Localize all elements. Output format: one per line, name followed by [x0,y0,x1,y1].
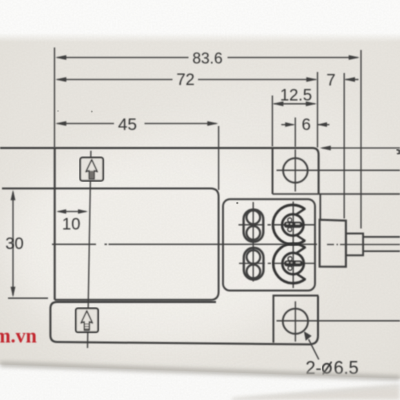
bottom white band [0,362,400,400]
cut-off char at right edge [397,150,400,155]
phi diameter symbol [323,362,332,375]
dim 7 right arrow [346,79,359,81]
screw upper 1 [247,211,261,225]
bottom section rounded rect [50,296,318,344]
ext line 83.6 right [360,50,362,229]
sensitivity adjuster lower [273,244,305,284]
mounting hole bottom [283,309,308,334]
adjuster vertical centerline [292,202,294,289]
ext line 30 bottom [8,297,48,299]
top mounting tab [272,148,274,194]
hole top crosshair horizontal + centerline to right edge [277,169,400,171]
ext line 12.5 left [271,96,273,147]
step to cable gland [319,194,321,219]
terminal screw centerline upper [239,224,315,226]
terminal screw pill upper [244,210,264,242]
cable gland stage 1 [320,220,346,267]
dim 10 [58,211,86,213]
dim 6 arrows [281,124,329,126]
ext line 45 right [218,126,220,190]
hole bottom crosshair horizontal + centerline to right edge [277,320,400,322]
bottom mounting tab [273,296,317,343]
top white band [0,0,400,33]
operation indicator box top [80,158,103,181]
left datum extension line [54,48,56,148]
hole bottom crosshair vertical [294,301,296,341]
dim 45 line [57,123,217,125]
cut-off dimension line top right [322,147,400,149]
screw lower 1 [247,250,261,264]
sensitivity adjuster upper [273,205,305,245]
body outline: top edge with extension to left, tab corner [0,148,319,194]
ext line gland right [343,73,345,219]
body left edge [54,148,56,300]
dim 72 line [57,79,316,81]
leader 2-phi6.5 [309,339,319,359]
cable gland stage 2 [346,234,363,256]
terminal screw pill lower [244,248,264,280]
hole top crosshair vertical [294,150,296,192]
tab bottom edge extending right [273,193,400,195]
cable bottom line [363,250,400,252]
cable top line [363,236,400,238]
mounting hole top [283,158,308,183]
screw lower 2 [247,265,261,279]
terminal screw centerline lower [239,262,315,264]
cover seam rounded rect (middle section) [2,188,219,299]
dim 30 vertical [12,192,14,296]
terminal screw vertical centerline [252,202,254,282]
screw upper 2 [247,226,261,240]
terminal cover box [223,199,315,290]
ext line hole centerline up [294,118,296,148]
dim 83.6 line [57,57,358,59]
dim 12.5 line [274,103,315,105]
ext line body right [317,72,319,148]
paper specks [236,202,238,204]
main horizontal centerline (dash-dot) [52,243,400,245]
operation indicator box bottom [76,308,98,332]
vertical centerline through arrow boxes [88,151,91,348]
